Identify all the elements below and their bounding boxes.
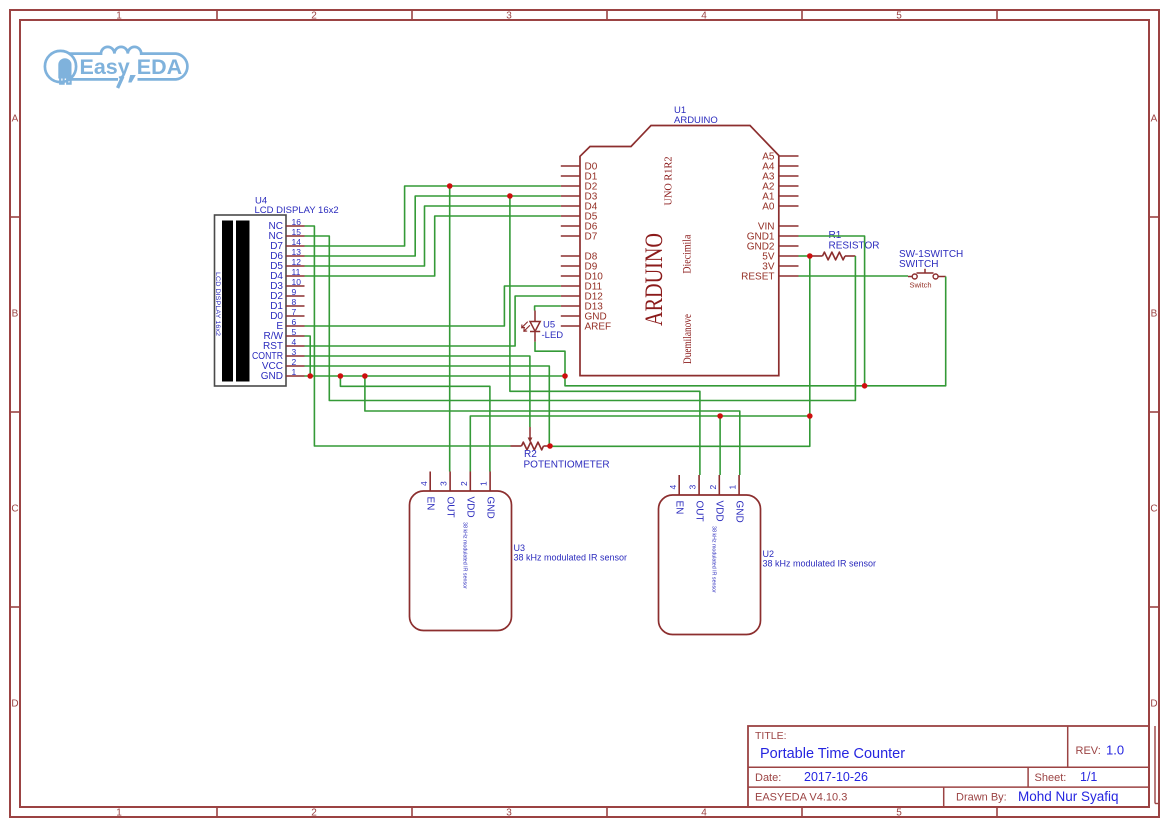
svg-text:R2: R2 (524, 449, 537, 460)
U4 pin 10 D3 (270, 277, 304, 292)
U4 pin 1 GND (261, 367, 305, 382)
U4 pin 11 D4 (270, 267, 304, 282)
svg-text:Mohd Nur Syafiq: Mohd Nur Syafiq (1018, 789, 1119, 804)
U4 pin 2 VCC (262, 357, 305, 372)
svg-text:REV:: REV: (1076, 745, 1101, 757)
svg-text:16: 16 (292, 217, 302, 227)
wire 5V bus to U2 VDD (719, 416, 721, 475)
U1 pin GND1 (747, 231, 799, 242)
wire U1 RESET to SW1 (799, 275, 909, 277)
U1 pin A2 (762, 181, 798, 192)
IR sensor U2 body (659, 495, 761, 635)
U1 pin A1 (762, 191, 798, 202)
svg-text:10: 10 (292, 277, 302, 287)
junction U5 cathode GND (562, 373, 568, 379)
wire U4 pin16 to R2 left (305, 226, 511, 446)
U1 pin D9 (561, 261, 598, 272)
svg-text:Duemilanove: Duemilanove (680, 314, 694, 364)
svg-text:2: 2 (708, 485, 718, 490)
svg-text:1.0: 1.0 (1106, 743, 1124, 758)
EasyEDA logo (45, 47, 187, 88)
wire U1 D13 to U5 anode (535, 306, 561, 311)
svg-text:A: A (1151, 114, 1158, 125)
junction GND1 bus (862, 383, 868, 389)
svg-text:D: D (11, 699, 18, 710)
wire GND bus to U2 GND (365, 376, 740, 475)
svg-text:Date:: Date: (755, 772, 781, 784)
U2 pin 2 VDD (708, 475, 725, 522)
svg-text:38 kHz modulated IR sensor: 38 kHz modulated IR sensor (514, 553, 628, 563)
potentiometer R2 (511, 427, 551, 450)
U3 pin 1 GND (479, 472, 496, 519)
svg-text:Sheet:: Sheet: (1035, 772, 1067, 784)
svg-text:6: 6 (292, 317, 297, 327)
U1 pin AREF (561, 321, 611, 332)
switch SW1 (908, 269, 946, 279)
svg-text:B: B (1151, 309, 1158, 320)
svg-text:1: 1 (116, 808, 122, 819)
U1 pin D5 (561, 211, 598, 222)
svg-text:ARDUINO: ARDUINO (674, 115, 718, 126)
U1 pin D1 (561, 171, 598, 182)
svg-text:1/1: 1/1 (1080, 770, 1097, 784)
svg-text:38 kHz modulated IR sensor: 38 kHz modulated IR sensor (462, 522, 468, 589)
U1 pin A0 (762, 201, 798, 212)
Arduino U1 body outline (580, 126, 779, 376)
junction 5V R1 (807, 253, 813, 259)
svg-text:POTENTIOMETER: POTENTIOMETER (524, 460, 610, 471)
U1 pin A4 (762, 161, 798, 172)
U1 pin VIN (758, 221, 799, 232)
wire U1 5V to R1 left (799, 255, 813, 257)
junction U2 VDD 5V bus (717, 413, 723, 419)
svg-text:4: 4 (668, 485, 678, 490)
svg-text:EDA: EDA (137, 55, 182, 79)
U1 pin D7 (561, 231, 598, 242)
svg-text:RESET: RESET (741, 271, 774, 282)
svg-text:-LED: -LED (542, 330, 564, 341)
svg-text:Eas: Eas (80, 55, 118, 79)
svg-text:D7: D7 (585, 231, 598, 242)
U4 pin 6 E (276, 317, 304, 332)
wire U4 RST to U1 D12 (305, 296, 561, 346)
svg-text:14: 14 (292, 237, 302, 247)
U3 pin 4 EN (419, 472, 436, 511)
U4 pin 12 D5 (270, 257, 304, 272)
svg-text:GND: GND (485, 497, 496, 519)
svg-text:3: 3 (439, 481, 449, 486)
U1 pin A3 (762, 171, 798, 182)
U1 pin 3V (762, 261, 798, 272)
svg-text:SWITCH: SWITCH (899, 259, 938, 270)
svg-text:4: 4 (292, 337, 297, 347)
U3 pin 2 VDD (459, 472, 476, 518)
svg-text:7: 7 (292, 307, 297, 317)
svg-text:U2: U2 (763, 549, 775, 559)
U1 pin D4 (561, 201, 598, 212)
svg-text:UNO R1R2: UNO R1R2 (664, 157, 675, 206)
junction D3 net (507, 193, 513, 199)
U4 pin 13 D6 (270, 247, 304, 262)
svg-text:TITLE:: TITLE: (755, 730, 787, 742)
U1 pin 5V (762, 251, 798, 262)
svg-text:AREF: AREF (585, 321, 612, 332)
title block (748, 726, 1159, 807)
svg-text:8: 8 (292, 297, 297, 307)
svg-text:C: C (11, 504, 18, 515)
svg-text:3: 3 (292, 347, 297, 357)
U1 pin D8 (561, 251, 598, 262)
U4 pin 14 D7 (270, 237, 304, 252)
wire U4 E to U1 D11 (305, 286, 561, 326)
svg-text:4: 4 (701, 808, 707, 819)
U2 pin 3 OUT (688, 475, 705, 522)
svg-text:38 kHz modulated IR sensor: 38 kHz modulated IR sensor (763, 559, 877, 569)
junction U4 R/W GND (307, 373, 313, 379)
U1 pin A5 (762, 151, 798, 162)
IR sensor U3 body (410, 491, 512, 631)
svg-text:1: 1 (116, 11, 122, 22)
U3 pin 3 OUT (439, 472, 456, 518)
svg-text:1: 1 (728, 485, 738, 490)
wire VDD 5V bus (470, 416, 810, 472)
svg-text:3: 3 (688, 485, 698, 490)
U4 pin 3 CONTR (252, 347, 305, 362)
wire U1 D3 to U2 OUT (510, 196, 700, 475)
svg-text:LCD DISPLAY 16x2: LCD DISPLAY 16x2 (214, 272, 221, 337)
U4 pin 4 RST (263, 337, 305, 352)
wire U4 pin13 to U1 D3 (305, 196, 561, 256)
svg-text:Switch: Switch (910, 281, 932, 290)
wire U4 pin15 to R1 right (305, 236, 856, 401)
svg-text:2: 2 (311, 808, 317, 819)
svg-text:VDD: VDD (465, 497, 476, 518)
U4 pin 5 R/W (264, 327, 305, 342)
wire U4 CONTR to R2 wiper (305, 356, 530, 427)
svg-text:GND: GND (261, 371, 283, 382)
svg-text:38 kHz modulated IR sensor: 38 kHz modulated IR sensor (711, 526, 717, 593)
svg-text:Drawn By:: Drawn By: (956, 792, 1007, 804)
U4 pin 8 D1 (270, 297, 304, 312)
U1 pin RESET (741, 271, 798, 282)
svg-text:OUT: OUT (445, 497, 456, 518)
svg-text:OUT: OUT (694, 501, 705, 522)
svg-text:5: 5 (292, 327, 297, 337)
U4 pin 9 D2 (270, 287, 304, 302)
svg-text:12: 12 (292, 257, 302, 267)
junction GND bus A (338, 373, 344, 379)
svg-text:4: 4 (419, 481, 429, 486)
svg-text:A: A (12, 114, 19, 125)
junction R2 right 5V (547, 443, 553, 449)
U1 pin D6 (561, 221, 598, 232)
wire U4 pin11 to U1 D5 (305, 216, 561, 276)
U1 pin D2 (561, 181, 598, 192)
svg-text:3: 3 (506, 11, 512, 22)
U1 pin D13 (561, 301, 603, 312)
U1 pin D3 (561, 191, 598, 202)
svg-text:4: 4 (701, 11, 707, 22)
svg-text:GND: GND (734, 501, 745, 523)
LCD module U4 body (214, 215, 286, 386)
U1 pin D12 (561, 291, 603, 302)
svg-text:B: B (12, 309, 19, 320)
junction D2 net (447, 183, 453, 189)
svg-text:9: 9 (292, 287, 297, 297)
svg-text:C: C (1150, 504, 1157, 515)
wire U4 pin12 to U1 D4 (305, 206, 561, 266)
wire U1 GND1 to GND bus (799, 236, 865, 386)
wire GND bus to SW1 (565, 277, 946, 386)
U4 pin 16 NC (269, 217, 305, 232)
U1 pin D10 (561, 271, 603, 282)
junction 5V bus vertical (807, 413, 813, 419)
svg-text:2: 2 (459, 481, 469, 486)
U2 pin 4 EN (668, 475, 685, 514)
wire U4 VCC to 5V net (305, 366, 550, 446)
svg-text:EN: EN (425, 497, 436, 511)
svg-text:Diecimila: Diecimila (680, 234, 694, 274)
svg-text:VDD: VDD (714, 501, 725, 522)
svg-text:EASYEDA V4.10.3: EASYEDA V4.10.3 (755, 792, 847, 804)
svg-text:5: 5 (896, 808, 902, 819)
U4 pin 15 NC (269, 227, 305, 242)
U1 pin D11 (561, 281, 603, 292)
svg-text:1: 1 (479, 481, 489, 486)
svg-text:1: 1 (292, 367, 297, 377)
resistor R1 (812, 252, 856, 260)
svg-text:D: D (1150, 699, 1157, 710)
svg-text:EN: EN (674, 501, 685, 515)
svg-text:3: 3 (506, 808, 512, 819)
svg-text:RESISTOR: RESISTOR (829, 241, 880, 252)
svg-text:U5: U5 (543, 320, 555, 331)
wire GND bus to U3 GND (340, 376, 490, 472)
wire U4 pin14 to U1 D2 (305, 186, 561, 246)
U4 pin 7 D0 (270, 307, 304, 322)
svg-text:LCD DISPLAY 16x2: LCD DISPLAY 16x2 (255, 205, 339, 216)
wire U4 R/W to GND bus (305, 336, 311, 376)
junction GND bus B (362, 373, 368, 379)
svg-text:ARDUINO: ARDUINO (639, 233, 668, 326)
svg-text:2: 2 (311, 11, 317, 22)
U1 pin GND (561, 311, 607, 322)
U1 pin GND2 (747, 241, 799, 252)
LED U5 (522, 311, 541, 342)
wire U4 GND bus (305, 375, 566, 377)
svg-text:y: y (118, 55, 130, 79)
wire 5V vertical to R2 right (550, 256, 810, 446)
wire U5 cathode to GND bus (535, 342, 565, 376)
svg-text:2: 2 (292, 357, 297, 367)
svg-text:Portable Time Counter: Portable Time Counter (760, 746, 905, 762)
svg-text:15: 15 (292, 227, 302, 237)
U1 pin D0 (561, 161, 598, 172)
U2 pin 1 GND (728, 475, 745, 523)
svg-text:11: 11 (292, 267, 301, 277)
svg-text:13: 13 (292, 247, 302, 257)
svg-text:U3: U3 (514, 543, 526, 553)
svg-text:2017-10-26: 2017-10-26 (804, 770, 868, 784)
svg-text:5: 5 (896, 11, 902, 22)
svg-text:A0: A0 (762, 201, 775, 212)
wire U1 D2 to U3 OUT (449, 186, 451, 472)
